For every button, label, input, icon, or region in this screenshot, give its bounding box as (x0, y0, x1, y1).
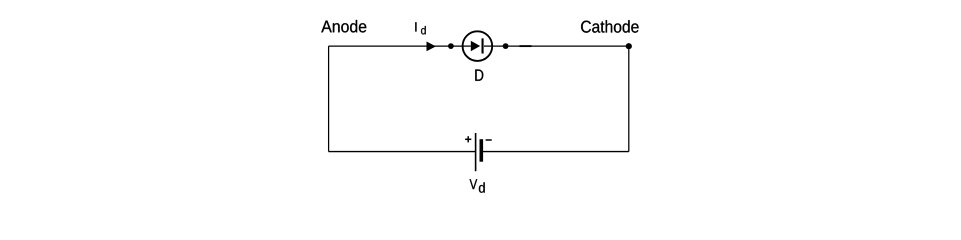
node dot right of diode (503, 43, 509, 49)
wire (thicker retouch segment right of diode) (520, 45, 532, 47)
battery plus sign (465, 136, 471, 142)
wire top (cathode side, diode to right corner) (492, 45, 629, 47)
wire right vertical (628, 46, 630, 152)
diode wire inside left (463, 45, 471, 47)
battery minus sign (486, 139, 492, 141)
diode circle (463, 31, 493, 61)
label Cathode (581, 20, 639, 33)
node dot cathode corner (626, 43, 632, 49)
label Vd (470, 179, 485, 192)
diode D symbol (463, 31, 493, 61)
wire left vertical (328, 46, 330, 152)
wire bottom right (from battery - plate) (483, 151, 629, 153)
battery positive plate (long) (475, 133, 477, 171)
label Anode (321, 20, 366, 33)
battery negative plate (short thick) (480, 139, 484, 162)
current arrow Id (427, 42, 436, 52)
label D (475, 70, 483, 81)
diode triangle (471, 41, 480, 52)
wire bottom left (to battery + plate) (329, 151, 475, 153)
node dot left of diode (448, 43, 454, 49)
diode wire inside right (484, 45, 492, 47)
wire top (anode side, left corner to diode) (329, 45, 463, 47)
label Id (415, 22, 425, 34)
diode cathode bar (482, 38, 484, 53)
battery Vd (465, 133, 492, 171)
